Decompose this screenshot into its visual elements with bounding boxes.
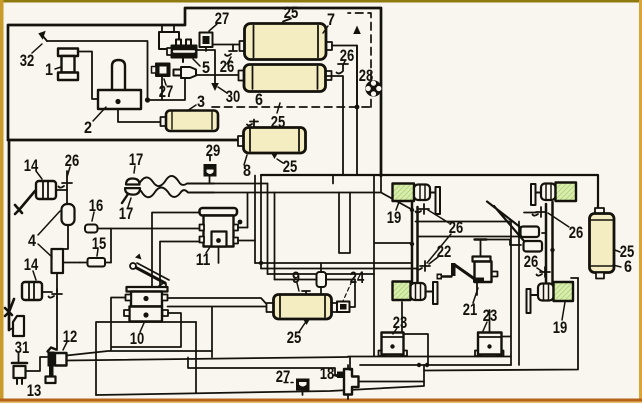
wire pills left xyxy=(418,236,521,238)
leader line xyxy=(97,249,98,256)
valve 23 left xyxy=(379,333,408,357)
svg-text:6: 6 xyxy=(255,90,263,109)
wire left frame vertical xyxy=(8,140,11,330)
wire right chamber feeds xyxy=(542,233,578,278)
wire 15 to left line xyxy=(63,262,80,264)
linkage to regulator xyxy=(437,263,477,280)
svg-text:27: 27 xyxy=(159,82,174,101)
valve 27b top xyxy=(200,33,213,52)
svg-text:25: 25 xyxy=(283,157,298,176)
leader line xyxy=(32,44,42,53)
wire top-left box xyxy=(8,8,381,176)
svg-text:3: 3 xyxy=(197,92,205,111)
svg-text:4: 4 xyxy=(28,231,36,250)
regulator 21 xyxy=(473,240,498,296)
leader line xyxy=(193,59,200,66)
fitting 26 a xyxy=(416,204,430,214)
fitting 26 near tank xyxy=(225,45,237,56)
wire left vertical xyxy=(57,190,68,249)
svg-text:15: 15 xyxy=(92,234,107,253)
valve 27a with port xyxy=(152,64,170,77)
svg-text:1: 1 xyxy=(45,60,53,79)
svg-text:26: 26 xyxy=(340,46,355,65)
valve 4a capsule xyxy=(62,204,75,225)
wire filter to compressor xyxy=(78,52,98,100)
svg-text:23: 23 xyxy=(393,313,408,332)
svg-text:23: 23 xyxy=(483,306,498,325)
svg-text:30: 30 xyxy=(226,87,241,106)
wire 10 left ports xyxy=(111,298,181,351)
leader line xyxy=(537,268,543,272)
leader line xyxy=(63,342,67,350)
svg-text:6: 6 xyxy=(624,257,632,276)
leader line xyxy=(323,26,328,33)
svg-text:26: 26 xyxy=(449,218,464,237)
wire safety valve to tank2 xyxy=(196,74,239,76)
valve 11 xyxy=(200,208,239,247)
junction dot xyxy=(145,97,150,102)
arrow up xyxy=(353,26,361,35)
valve 15 xyxy=(80,229,111,267)
leader line xyxy=(164,79,166,85)
svg-text:27: 27 xyxy=(215,9,230,28)
svg-text:19: 19 xyxy=(387,208,402,227)
leader line xyxy=(393,328,397,334)
svg-text:31: 31 xyxy=(15,338,30,357)
leader line xyxy=(473,288,478,303)
axle lines right xyxy=(546,202,553,283)
drain fitting 22 xyxy=(417,261,431,271)
leader line xyxy=(615,250,620,252)
leader line xyxy=(299,323,305,332)
wire 10 right ports xyxy=(168,298,267,351)
leader line xyxy=(128,198,131,207)
trunk wires xyxy=(238,228,255,241)
leader line xyxy=(209,24,217,31)
leader line xyxy=(140,323,144,332)
svg-text:27: 27 xyxy=(276,367,291,386)
leader line xyxy=(55,67,61,69)
arrow 32 xyxy=(42,35,47,41)
svg-text:25: 25 xyxy=(271,113,286,132)
leader line xyxy=(38,211,60,235)
coiled hose xyxy=(139,176,214,186)
tank 8 xyxy=(238,120,306,164)
leader line xyxy=(218,87,227,93)
junction dot xyxy=(115,99,120,104)
sensor above tank 9 xyxy=(317,263,327,294)
leader line xyxy=(244,155,247,165)
leader line xyxy=(483,322,487,331)
fitting 26 c xyxy=(533,207,547,217)
svg-text:26: 26 xyxy=(524,252,539,271)
coupling 18 xyxy=(337,365,359,399)
leader line xyxy=(206,247,210,253)
svg-text:14: 14 xyxy=(24,255,39,274)
wire tank25 to up arrow xyxy=(332,46,357,108)
compressor 2 xyxy=(98,60,141,109)
svg-text:9: 9 xyxy=(292,268,300,287)
leader line xyxy=(613,265,621,267)
leader line xyxy=(427,234,451,263)
chamber 19 front-right xyxy=(531,183,576,206)
svg-text:5: 5 xyxy=(202,58,210,77)
wire from arrow 32 to governor xyxy=(47,41,185,100)
svg-text:32: 32 xyxy=(20,51,35,70)
wire 21 tee to pill xyxy=(487,240,522,246)
valve 16 xyxy=(85,225,111,233)
svg-text:16: 16 xyxy=(89,196,104,215)
leader line xyxy=(187,105,196,111)
wire 23a stubs xyxy=(348,302,511,370)
junction dot xyxy=(355,105,360,110)
leader line xyxy=(134,166,135,173)
svg-text:14: 14 xyxy=(24,156,39,175)
reservoir 31 xyxy=(9,316,24,336)
wire 10 to 11 risers xyxy=(152,213,201,288)
wire main lower frame xyxy=(261,175,598,213)
wire valve 27a drop xyxy=(161,76,163,100)
valve 24 xyxy=(337,280,355,313)
brake chamber 14 top xyxy=(15,181,56,214)
wire box bottom to tank 8 xyxy=(8,139,238,142)
wire 23b stubs xyxy=(490,222,520,366)
safety valve below 5 xyxy=(174,67,197,78)
wire rear feeds xyxy=(374,175,418,356)
leader line xyxy=(36,171,42,179)
leader line xyxy=(67,167,70,177)
leader line xyxy=(277,103,280,113)
chamber 19 rear-right xyxy=(527,282,574,313)
svg-text:26: 26 xyxy=(65,151,80,170)
tank 3 xyxy=(161,111,219,132)
junction dot xyxy=(238,220,243,225)
sensor 29 xyxy=(204,156,217,184)
wire 13 to 12 xyxy=(26,357,48,371)
leader line xyxy=(93,107,106,121)
junction dots xyxy=(410,208,414,212)
leader line xyxy=(227,57,231,64)
leader line xyxy=(396,202,399,210)
fitting 26 top right xyxy=(337,64,349,73)
chamber 19 front-left xyxy=(393,184,441,215)
svg-text:11: 11 xyxy=(196,250,211,269)
fitting 26 d xyxy=(537,267,551,277)
axle lines left xyxy=(412,201,418,282)
svg-text:21: 21 xyxy=(463,300,478,319)
svg-text:18: 18 xyxy=(320,364,335,383)
tank 6 right xyxy=(590,208,615,279)
valve 12 xyxy=(46,348,67,384)
wire 12 right xyxy=(67,322,349,395)
valve 27 bottom xyxy=(284,379,310,396)
leader line xyxy=(33,271,36,280)
wire valve5 to tanks xyxy=(213,44,240,46)
filter 1 xyxy=(58,49,78,81)
svg-text:25: 25 xyxy=(284,3,299,22)
wire compressor bottom to tank 3 xyxy=(118,109,161,122)
tank 7 lower xyxy=(239,65,332,92)
junction dot xyxy=(550,248,554,252)
leader line xyxy=(92,212,94,221)
leader line xyxy=(38,244,52,257)
gauge 28 xyxy=(365,80,381,96)
fitting 26 left xyxy=(59,171,73,190)
frame right box xyxy=(416,222,579,371)
wire bottom runs xyxy=(188,358,337,376)
chamber 19 rear-left xyxy=(393,282,438,305)
svg-text:8: 8 xyxy=(243,161,251,180)
quick release pills xyxy=(521,227,543,252)
svg-text:17: 17 xyxy=(129,150,144,169)
leader line xyxy=(562,302,565,320)
wire frame to 26c xyxy=(524,212,536,214)
leader line xyxy=(548,213,569,227)
svg-text:2: 2 xyxy=(84,118,92,137)
pedal xyxy=(130,254,169,288)
arrow 30 down xyxy=(196,50,215,83)
wire tank7 nub line xyxy=(327,76,343,175)
tank 25 top xyxy=(240,19,333,60)
wire 4b down xyxy=(56,273,58,350)
leader line xyxy=(429,257,438,264)
svg-text:19: 19 xyxy=(553,318,568,337)
fitting 26 lower xyxy=(49,289,63,299)
coupling heads 17 xyxy=(122,179,140,204)
leader line xyxy=(428,210,449,223)
svg-text:10: 10 xyxy=(130,329,145,348)
valve 4b xyxy=(52,249,64,273)
unloader valve 5 xyxy=(167,40,197,63)
svg-text:17: 17 xyxy=(119,204,134,223)
leader line xyxy=(343,61,345,65)
dashed box xyxy=(212,13,371,107)
wires verticals to lower frame xyxy=(356,46,358,176)
wire 16 line to 11 xyxy=(111,228,201,230)
brake chamber 14 bottom xyxy=(5,282,52,316)
junction dots xyxy=(417,363,421,367)
svg-text:29: 29 xyxy=(206,141,221,160)
svg-text:13: 13 xyxy=(27,381,42,400)
svg-text:12: 12 xyxy=(63,327,78,346)
svg-text:26: 26 xyxy=(569,223,584,242)
svg-text:25: 25 xyxy=(287,328,302,347)
valve 23 right xyxy=(475,333,504,357)
brake valve 10 xyxy=(124,287,168,322)
trunk horizontals to rear xyxy=(255,263,418,280)
leader line xyxy=(333,375,339,377)
valve 13 xyxy=(12,353,27,384)
leader line xyxy=(297,283,299,291)
svg-text:26: 26 xyxy=(220,57,235,76)
svg-text:28: 28 xyxy=(359,66,374,85)
wire chamber to line xyxy=(56,189,67,191)
svg-text:7: 7 xyxy=(327,10,335,29)
svg-text:24: 24 xyxy=(350,268,365,287)
svg-text:22: 22 xyxy=(437,242,452,261)
hose strokes xyxy=(487,202,524,242)
governor box xyxy=(159,32,179,49)
tank 9 xyxy=(267,291,339,325)
